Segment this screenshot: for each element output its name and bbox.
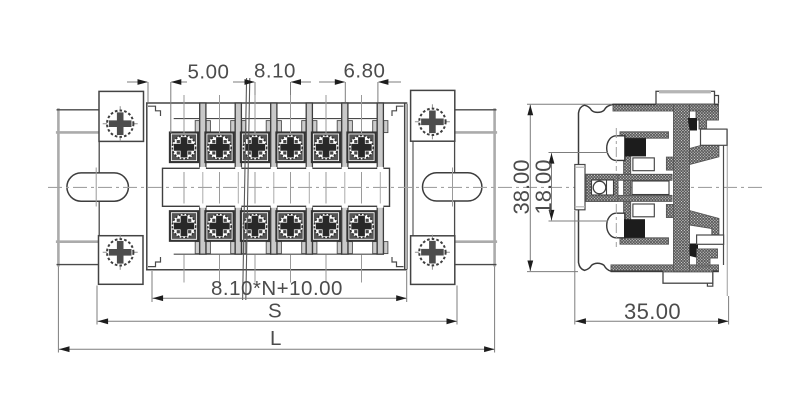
dimension 8.10: [233, 82, 311, 95]
horizontal centreline: [48, 186, 765, 188]
dimension 38.00: [527, 104, 612, 271]
body inner corner steps: [148, 106, 404, 266]
right rail bottom notch: [455, 240, 496, 243]
screw cavity bottom outline: [633, 204, 654, 217]
right DIN-rail end edge: [493, 110, 496, 266]
dimension 35.00: [575, 211, 729, 325]
dimension 6.80: [319, 82, 401, 102]
bottom cover: [663, 272, 713, 284]
top cover: [656, 91, 715, 104]
wire funnel flange: [575, 165, 585, 210]
clamp screw bottom section: [624, 219, 645, 238]
dimension S: [97, 286, 457, 325]
dimension L: [58, 267, 494, 353]
mounting plate top-left: [99, 91, 144, 141]
clamp screw top section: [625, 138, 646, 156]
dimension 8.10*N+10.00: [152, 271, 407, 302]
terminal 1 row top: [170, 133, 198, 163]
terminal 1 row bottom: [170, 211, 198, 241]
terminal 2 row top: [205, 133, 233, 163]
svg-text:8.10*N+10.00: 8.10*N+10.00: [211, 277, 343, 300]
mounting screw phillips at 432.4,121.8: [415, 104, 450, 139]
central channel: [163, 168, 390, 206]
svg-text:6.80: 6.80: [344, 60, 386, 83]
clamp screw top head: [607, 136, 625, 161]
cage: [586, 174, 618, 201]
column bumps: [666, 157, 673, 170]
terminal 3 row bottom: [241, 211, 269, 241]
separator marks in channel: [203, 172, 380, 204]
terminal 6 row bottom: [347, 211, 375, 241]
top black wedge: [688, 118, 697, 131]
left slot obround: [67, 173, 128, 201]
left bracket edge between plates: [98, 141, 100, 235]
dimension 5.00: [127, 82, 187, 133]
right bracket edge between plates: [454, 141, 456, 236]
dimension 18.00: [549, 153, 609, 222]
side body outline: [579, 104, 719, 271]
svg-text:8.10: 8.10: [254, 60, 296, 83]
left rail bottom notch: [57, 240, 99, 243]
screw axis centrelines: [615, 128, 617, 247]
hatched bottom band: [611, 265, 719, 272]
terminal 3 row top: [241, 133, 269, 163]
yoke top arm: [690, 143, 719, 165]
separator walls: [200, 103, 384, 254]
terminal 2 row bottom: [205, 211, 233, 241]
hatched top band: [613, 104, 719, 111]
bottom claw black wedge: [690, 244, 699, 259]
cell guide tabs: [195, 121, 388, 254]
top rail claw: [696, 111, 719, 129]
svg-text:18.00: 18.00: [531, 159, 556, 214]
mounting plate bottom-left: [99, 236, 144, 285]
mounting plate bottom-right: [411, 236, 455, 285]
clamp screw bottom head: [607, 213, 625, 238]
cell top lines row1: [174, 119, 377, 255]
mounting screw phillips at 120.2,252.3: [103, 235, 138, 270]
hatched central column: [674, 104, 690, 271]
terminal block body outline: [146, 103, 407, 270]
ladder bottom border: [585, 195, 672, 201]
ladder middle white window: [632, 181, 669, 195]
rail bottom flange: [697, 235, 724, 244]
left DIN-rail end edge: [57, 110, 60, 266]
right slot obround: [423, 173, 482, 201]
top clamp bar: [620, 132, 669, 138]
mounting screw phillips at 432.4,252.2: [415, 235, 450, 270]
mounting screw phillips at 120.2,123.7: [103, 106, 138, 141]
terminal 4 row top: [276, 133, 304, 163]
bottom clamp bar: [620, 238, 669, 244]
terminal 5 row top: [312, 133, 340, 163]
terminal 5 row bottom: [312, 211, 340, 241]
ladder top border: [585, 174, 672, 180]
rail outer web: [723, 145, 725, 265]
screw cavity top outline: [633, 158, 654, 171]
link column: [624, 138, 631, 238]
svg-text:L: L: [270, 327, 281, 350]
yoke bottom arm: [690, 211, 719, 241]
terminal centre marks: [184, 95, 362, 283]
rail top flange: [701, 129, 728, 145]
svg-text:35.00: 35.00: [624, 299, 681, 324]
mounting plate top-right: [411, 90, 455, 141]
svg-text:S: S: [268, 300, 282, 323]
svg-text:5.00: 5.00: [188, 61, 230, 84]
terminal 6 row top: [347, 133, 375, 163]
right rail top notch: [455, 109, 496, 111]
bottom rail claw: [697, 249, 718, 266]
terminal 4 row bottom: [276, 211, 304, 241]
left rail top notch: [57, 109, 99, 111]
break lines: [243, 78, 247, 300]
